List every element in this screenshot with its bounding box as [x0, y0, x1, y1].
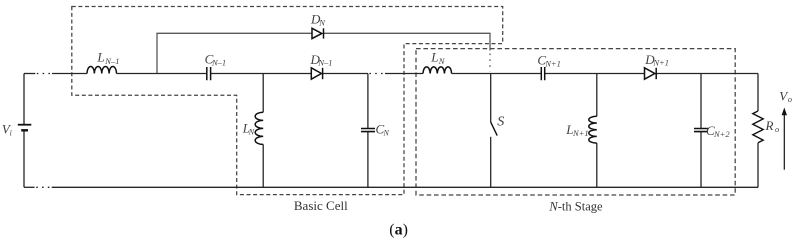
svg-text:S: S: [497, 114, 504, 129]
svg-text:N+1: N+1: [572, 128, 589, 138]
svg-text:(a): (a): [389, 222, 408, 239]
svg-text:N: N: [383, 129, 390, 138]
svg-text:o: o: [775, 124, 779, 134]
svg-text:N+2: N+2: [713, 129, 730, 139]
svg-text:N–1: N–1: [211, 57, 226, 67]
svg-text:i: i: [10, 128, 12, 137]
svg-text:N+1: N+1: [544, 58, 561, 68]
svg-text:N-th Stage: N-th Stage: [548, 199, 603, 213]
svg-text:R: R: [765, 118, 774, 133]
svg-text:o: o: [788, 94, 792, 104]
svg-text:N+1: N+1: [652, 58, 669, 68]
svg-text:L: L: [96, 49, 104, 64]
svg-text:N: N: [248, 127, 255, 136]
svg-text:Basic Cell: Basic Cell: [294, 198, 348, 213]
svg-text:N–1: N–1: [317, 57, 332, 67]
svg-text:N–1: N–1: [104, 56, 119, 66]
svg-text:L: L: [430, 50, 438, 65]
